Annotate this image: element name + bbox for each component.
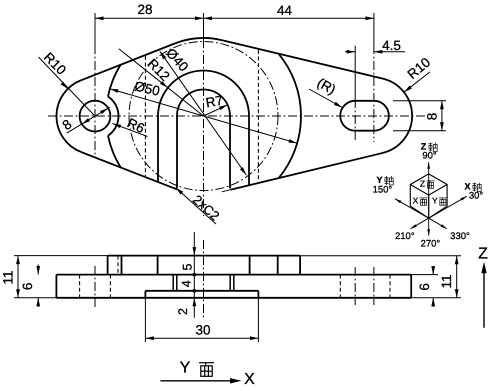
svg-text:2: 2 xyxy=(176,308,190,315)
svg-text:Y: Y xyxy=(432,196,438,206)
svg-text:R7: R7 xyxy=(205,93,225,111)
svg-text:30°: 30° xyxy=(469,190,484,201)
svg-text:5: 5 xyxy=(180,263,194,270)
svg-text:150°: 150° xyxy=(373,184,393,195)
svg-text:Z: Z xyxy=(478,246,488,263)
svg-text:Z: Z xyxy=(420,179,425,189)
svg-text:8: 8 xyxy=(425,113,440,121)
svg-text:270°: 270° xyxy=(421,238,441,249)
svg-text:X: X xyxy=(244,371,255,388)
svg-text:6: 6 xyxy=(20,283,35,291)
svg-text:90°: 90° xyxy=(422,151,437,162)
svg-text:28: 28 xyxy=(137,2,152,17)
svg-text:X: X xyxy=(413,196,419,206)
svg-text:30: 30 xyxy=(195,322,210,337)
svg-text:330°: 330° xyxy=(450,231,470,242)
svg-text:11: 11 xyxy=(1,270,16,284)
svg-text:44: 44 xyxy=(277,3,293,18)
svg-text:11: 11 xyxy=(439,274,454,288)
svg-text:6: 6 xyxy=(417,283,432,291)
svg-text:Y: Y xyxy=(180,360,191,377)
svg-text:210°: 210° xyxy=(395,231,415,242)
svg-text:4: 4 xyxy=(179,280,193,287)
svg-text:4.5: 4.5 xyxy=(382,38,401,53)
